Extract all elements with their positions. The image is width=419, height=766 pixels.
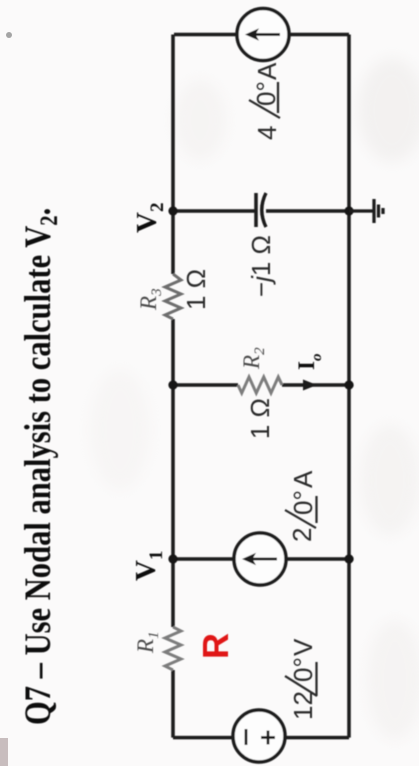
wire bottom rail bbox=[173, 35, 349, 738]
ground bbox=[349, 199, 383, 223]
svg-text:V: V bbox=[288, 638, 318, 656]
wire R2 branch bbox=[173, 383, 349, 387]
scan speck top-left bbox=[6, 32, 12, 38]
label 2 angle 0 A bbox=[285, 470, 318, 542]
node V1 dot bbox=[168, 554, 177, 563]
voltage source plus bbox=[261, 731, 275, 745]
node R2 top dot bbox=[168, 380, 177, 389]
wire top rail bbox=[171, 35, 175, 738]
svg-text:2: 2 bbox=[287, 528, 317, 542]
node bottom R2 dot bbox=[344, 380, 353, 389]
current source 4A circle bbox=[237, 9, 289, 61]
voltage source 12V circle bbox=[233, 710, 285, 762]
title Q7 bbox=[18, 208, 62, 725]
current source 2A circle bbox=[234, 533, 286, 585]
svg-text:1 Ω: 1 Ω bbox=[181, 269, 211, 310]
label 4 angle 0 A bbox=[249, 62, 282, 140]
svg-text:0°: 0° bbox=[251, 81, 281, 106]
wire right rail bbox=[174, 33, 349, 37]
arrow Io on wire bbox=[303, 380, 317, 391]
current source 2A arrow bbox=[252, 558, 277, 561]
svg-text:−j1 Ω: −j1 Ω bbox=[246, 235, 276, 297]
svg-text:1 Ω: 1 Ω bbox=[245, 398, 275, 439]
svg-text:A: A bbox=[252, 62, 282, 80]
node bottom 2A dot bbox=[344, 554, 353, 563]
voltage source minus bbox=[245, 729, 248, 745]
svg-text:Q7 – Use Nodal analysis to cal: Q7 – Use Nodal analysis to calculate V2. bbox=[18, 208, 62, 725]
resistor R3 bbox=[165, 274, 181, 319]
scan smudge bottom-left bbox=[0, 738, 8, 766]
svg-text:A: A bbox=[288, 470, 318, 488]
node bottom C dot bbox=[344, 206, 353, 215]
svg-text:R: R bbox=[195, 633, 236, 659]
wire 2A branch bbox=[173, 557, 349, 561]
resistor R2 bbox=[238, 377, 282, 393]
node V2 dot bbox=[168, 206, 177, 215]
resistor R1 bbox=[165, 627, 181, 670]
svg-text:0°: 0° bbox=[288, 490, 318, 515]
svg-text:4: 4 bbox=[252, 126, 282, 140]
current source 4A arrow bbox=[255, 33, 280, 36]
capacitor C plates bbox=[254, 193, 257, 227]
svg-text:12: 12 bbox=[288, 691, 318, 720]
svg-text:0°: 0° bbox=[288, 657, 318, 682]
label 12 angle 0 V bbox=[285, 638, 318, 720]
wire capacitor branch bbox=[173, 209, 349, 213]
